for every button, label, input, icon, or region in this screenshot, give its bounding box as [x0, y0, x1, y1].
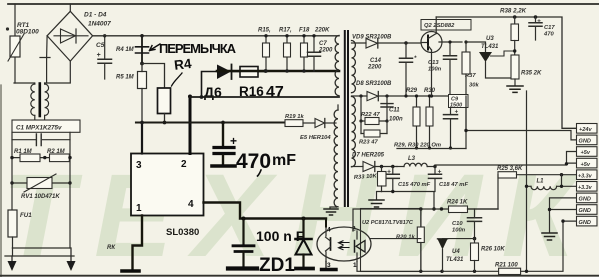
svg-text:RV1 10D471K: RV1 10D471K — [21, 194, 60, 200]
svg-text:C18 47 mF: C18 47 mF — [439, 182, 468, 188]
border left edge — [0, 85, 2, 277]
bridge rectifier D1-D4 — [47, 4, 111, 61]
svg-text:100 n F: 100 n F — [256, 228, 305, 244]
svg-text:C9: C9 — [451, 97, 459, 103]
handwritten annotation PEREMYCHKA — [150, 41, 237, 56]
svg-text:C7: C7 — [319, 41, 327, 47]
svg-text:TL431: TL431 — [446, 257, 464, 263]
handwritten annotation R4 — [172, 56, 193, 86]
svg-text:R25 3,6K: R25 3,6K — [497, 166, 523, 172]
resistor R33 10K — [354, 167, 386, 192]
svg-text:ZD1: ZD1 — [259, 255, 295, 276]
capacitor C5 — [96, 34, 112, 79]
wire R29 R30 bottom rail — [394, 96, 466, 149]
svg-text:C14: C14 — [370, 58, 382, 64]
resistor R20 1k — [396, 209, 424, 271]
svg-text:C15 470 mF: C15 470 mF — [398, 182, 431, 188]
capacitor C1 label box — [12, 120, 80, 132]
svg-text:+5v: +5v — [581, 150, 591, 156]
capacitor C14 — [367, 43, 417, 96]
IC U1 SL0380 — [131, 154, 204, 239]
wire 3.3v tie — [561, 175, 563, 187]
svg-text:GND: GND — [579, 208, 591, 214]
wire bridge AC left leg — [40, 36, 50, 83]
capacitor C10 100n — [452, 209, 482, 240]
svg-text:+24v: +24v — [579, 127, 592, 133]
ground (output common) — [542, 233, 557, 240]
capacitor C18 47mF — [429, 165, 469, 192]
svg-text:1: 1 — [136, 203, 142, 214]
svg-text:470: 470 — [236, 150, 271, 173]
resistor R5 1M — [116, 64, 147, 123]
svg-text:F18: F18 — [299, 28, 310, 34]
wire main DC rail — [93, 35, 339, 37]
wire IC pin1 to ground — [107, 216, 142, 272]
svg-text:R29: R29 — [406, 88, 418, 94]
diode VD9 SR3100B — [352, 35, 422, 49]
svg-text:+: + — [387, 169, 391, 176]
capacitor C9 1500 — [444, 95, 469, 150]
connector pin +5v a — [577, 147, 598, 157]
svg-text:R21 100: R21 100 — [495, 263, 518, 269]
svg-text:R2 1M: R2 1M — [47, 149, 66, 155]
svg-text:U4: U4 — [452, 249, 460, 255]
svg-text:FU1: FU1 — [20, 212, 32, 219]
wire mains line 1 — [12, 247, 69, 249]
wire top rail — [8, 3, 599, 5]
svg-text:2200: 2200 — [367, 65, 382, 71]
wire aux rail (R19 row) — [136, 121, 285, 125]
resistor R25 3,6K — [497, 166, 577, 178]
wire IC pin3 — [141, 123, 143, 154]
wire R24 to R25 riser — [497, 175, 499, 209]
svg-text:+: + — [455, 110, 459, 116]
svg-text:L1: L1 — [537, 179, 545, 185]
fuse FU1 — [8, 210, 32, 256]
svg-text:ПЕРЕМЫЧКА: ПЕРЕМЫЧКА — [159, 41, 237, 56]
resistor R29 — [406, 88, 420, 150]
svg-text:VD9 SR3100B: VD9 SR3100B — [352, 35, 392, 41]
svg-text:GND: GND — [579, 139, 591, 145]
resistor F18 — [299, 28, 330, 73]
handwritten annotation D6 — [204, 84, 222, 100]
wire feedback mid thick — [190, 95, 339, 99]
svg-text:R17,: R17, — [279, 28, 292, 34]
svg-text:2200: 2200 — [318, 48, 333, 54]
resistor R19 1k — [285, 114, 315, 127]
shunt regulator U3 TL431 — [466, 36, 515, 78]
handwritten annotation R16 47 — [239, 84, 284, 101]
wire gnd stubs to connector — [548, 198, 577, 232]
watermark TEHNIK — [2, 150, 594, 277]
resistor R22 47 — [359, 96, 388, 125]
connector pin +24v — [577, 124, 598, 134]
svg-text:C1 MPX1K275v: C1 MPX1K275v — [16, 125, 62, 132]
svg-text:RК: RК — [107, 245, 116, 251]
optocoupler U2 box — [361, 209, 422, 272]
resistor R23 47 — [359, 121, 387, 146]
resistor R35 2K — [511, 55, 542, 85]
jumper (removed R4) in rail branch — [116, 34, 149, 65]
svg-text:R35 2K: R35 2K — [521, 71, 542, 77]
wire top rail 24v — [436, 15, 576, 128]
svg-text:C11: C11 — [389, 108, 400, 114]
svg-text:470: 470 — [543, 32, 554, 38]
handwritten annotation 100 nF — [256, 228, 305, 244]
capacitor C11 100n — [381, 104, 403, 123]
resistor R24 1K — [447, 200, 498, 213]
wire bridge DC bottom leg — [45, 61, 70, 83]
capacitor C7 — [308, 34, 334, 71]
wire opto pin2 — [353, 209, 361, 231]
capacitor C1 — [12, 132, 70, 145]
svg-text:+: + — [230, 134, 237, 148]
ground (opto pin3) — [322, 262, 337, 270]
svg-text:Е5 HER104: Е5 HER104 — [300, 135, 331, 141]
capacitor C15 470mF — [386, 165, 430, 192]
wire ground bus to connector — [464, 129, 576, 140]
capacitor C17 470 — [529, 17, 555, 40]
svg-text:R26 10K: R26 10K — [481, 247, 505, 253]
svg-text:+3.3v: +3.3v — [578, 173, 593, 179]
svg-text:220K: 220K — [314, 28, 330, 34]
wire choke top left — [14, 82, 34, 84]
border bottom edge — [0, 275, 599, 277]
svg-text:C13: C13 — [428, 60, 439, 66]
capacitor C13 100n — [428, 40, 457, 97]
svg-text:mF: mF — [272, 152, 296, 169]
connector pin GND1 — [577, 135, 598, 145]
svg-text:C5: C5 — [96, 42, 105, 49]
capacitor 470uF (hand emphasized) — [212, 123, 237, 167]
optocoupler U2 — [317, 226, 371, 270]
svg-text:4: 4 — [188, 199, 194, 210]
svg-text:100n: 100n — [452, 228, 466, 234]
svg-text:R5 1M: R5 1M — [116, 75, 135, 81]
shunt regulator U4 TL431 — [370, 239, 475, 272]
resistor R17 — [279, 28, 292, 73]
connector pin GND3 — [577, 205, 598, 215]
svg-text:1500: 1500 — [450, 103, 462, 109]
svg-text:30k: 30k — [469, 83, 479, 89]
svg-text:R23 47: R23 47 — [359, 140, 378, 146]
transistor Q2 2SD882 — [421, 17, 462, 96]
svg-text:U3: U3 — [486, 36, 494, 42]
svg-text:2: 2 — [181, 159, 187, 170]
diode D7 HER205 — [352, 153, 398, 172]
label box Q2 — [421, 20, 471, 31]
resistor R21 100 — [495, 263, 521, 275]
svg-text:D7 HER205: D7 HER205 — [352, 153, 385, 159]
svg-text:4: 4 — [327, 227, 331, 234]
ground (secondary filter) — [369, 192, 384, 208]
wire bottom rail — [357, 221, 577, 273]
resistor R15 — [258, 28, 271, 73]
handwritten annotation ZD1 — [259, 255, 295, 276]
transformer T1 secondary winding — [352, 41, 356, 167]
connector pin +3.3v a — [577, 170, 598, 180]
transformer primary ground — [324, 207, 338, 215]
svg-text:GND: GND — [579, 197, 591, 203]
svg-text:R29, R30 220 Om: R29, R30 220 Om — [394, 143, 441, 149]
zener diode ZD1 — [296, 219, 314, 269]
svg-text:+: + — [438, 169, 442, 176]
svg-text:08D100: 08D100 — [16, 29, 39, 36]
svg-text:SL0380: SL0380 — [166, 227, 199, 238]
svg-text:R15,: R15, — [258, 28, 271, 34]
inductor L3 — [397, 156, 435, 167]
svg-text:R4: R4 — [173, 56, 192, 73]
svg-text:R30: R30 — [424, 88, 436, 94]
svg-text:+3.3v: +3.3v — [578, 185, 593, 191]
svg-text:+: + — [97, 52, 101, 59]
svg-text:100n: 100n — [389, 117, 403, 123]
capacitor 100nF (hand drawn) — [228, 219, 257, 269]
svg-text:Q2 2SD882: Q2 2SD882 — [424, 23, 455, 29]
transformer T1 primary winding — [334, 36, 339, 208]
svg-text:R20 1k: R20 1k — [396, 235, 415, 241]
svg-text:R1 1M: R1 1M — [14, 149, 33, 155]
common-mode choke L2 — [31, 83, 49, 120]
svg-text:R38 2,2K: R38 2,2K — [500, 8, 527, 15]
svg-text:D1 - D4: D1 - D4 — [84, 12, 107, 19]
svg-text:+: + — [537, 18, 541, 25]
connector pin GND2 — [577, 193, 598, 203]
transformer T1 core — [345, 31, 348, 206]
svg-text:L3: L3 — [408, 156, 416, 162]
wire opto pin4 — [325, 219, 327, 227]
resistor R38 2,2K — [500, 8, 527, 56]
wire R24 row — [361, 207, 499, 210]
svg-text:R24 1K: R24 1K — [447, 200, 468, 206]
svg-text:TL431: TL431 — [481, 44, 499, 50]
wire mains line 2 — [5, 255, 74, 257]
resistor R1 1M — [12, 140, 70, 183]
wire +5v row — [435, 152, 577, 166]
connector pin +3.3v b — [577, 182, 598, 192]
svg-text:R4 1M: R4 1M — [116, 47, 135, 53]
wire IC pin2 thick — [188, 95, 192, 154]
svg-text:R19 1k: R19 1k — [285, 114, 304, 120]
svg-text:47: 47 — [266, 84, 284, 101]
resistor R30 — [424, 88, 436, 150]
diode D8 SR3100B — [352, 81, 467, 101]
svg-text:U2 PC817/LTV817C: U2 PC817/LTV817C — [362, 220, 414, 226]
resistor R16 — [240, 67, 267, 78]
wire snubber rail thick — [217, 70, 339, 73]
thermistor RT1 — [6, 4, 39, 83]
resistor R2 1M — [10, 149, 71, 162]
varistor RV1 — [10, 174, 71, 248]
svg-text:C17: C17 — [544, 25, 555, 31]
mains input arrow left — [8, 256, 17, 271]
svg-text:100n: 100n — [428, 67, 442, 73]
connector pin GND4 — [577, 216, 598, 226]
resistor R37 30k — [462, 40, 479, 130]
diode D5 HER104 — [300, 119, 336, 142]
resistor R26 10K — [471, 239, 506, 272]
svg-text:D8 SR3100B: D8 SR3100B — [356, 81, 392, 87]
wire secondary common rail — [382, 190, 436, 211]
handwritten annotation 470 mF — [236, 150, 296, 176]
inductor L1 — [525, 91, 577, 271]
svg-text:1N4007: 1N4007 — [88, 21, 111, 28]
svg-text:GND: GND — [579, 220, 591, 226]
svg-text:3: 3 — [136, 160, 142, 171]
svg-text:+5v: +5v — [581, 162, 591, 168]
resistor R4 (big, hand-noted) — [142, 64, 171, 125]
wire IC pin4 net — [204, 203, 327, 221]
diode D6 — [202, 65, 241, 98]
svg-text:C10: C10 — [452, 221, 463, 227]
connector pin +5v b — [577, 158, 598, 168]
ground (U3/R35) — [507, 86, 523, 92]
mains input arrow right — [67, 248, 76, 271]
